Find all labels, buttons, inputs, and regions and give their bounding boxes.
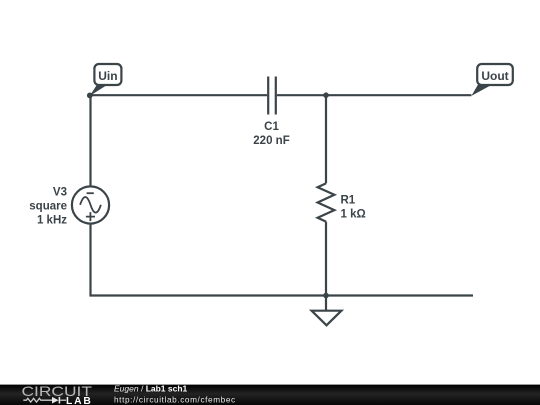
svg-text:C1: C1: [264, 121, 279, 133]
svg-text:square: square: [29, 201, 67, 213]
svg-text:Eugen / Lab1 sch1: Eugen / Lab1 sch1: [114, 383, 188, 393]
wire right vertical lower (R1 bottom to bottom rail): [325, 222, 327, 296]
voltage source V3: [72, 186, 109, 223]
svg-text:1 kHz: 1 kHz: [37, 215, 67, 227]
svg-text:http://circuitlab.com/cfembec: http://circuitlab.com/cfembec: [114, 395, 236, 404]
label V3 value: [29, 187, 67, 227]
wire ground stub: [325, 296, 327, 311]
node Uout flag: [471, 64, 512, 96]
junction node at bottom rail / ground: [323, 293, 329, 299]
resistor R1: [318, 183, 335, 221]
label R1 value: [341, 195, 366, 221]
footer url: [114, 395, 236, 404]
label C1 value: [253, 121, 289, 147]
CircuitLab logo: [22, 383, 93, 405]
footer bar: [0, 385, 540, 405]
svg-text:Uin: Uin: [98, 69, 117, 83]
wire right vertical upper (junction to R1 top): [325, 95, 327, 183]
junction node at C1/R1: [323, 92, 329, 98]
svg-text:V3: V3: [53, 187, 67, 199]
wire left vertical lower (V3 bottom to bottom rail): [89, 224, 91, 297]
wire top left (Uin corner to C1 left plate): [91, 94, 268, 96]
ground: [312, 311, 342, 326]
wire top right (C1 right plate to Uout flag): [277, 94, 472, 96]
node Uin flag: [87, 64, 122, 98]
wire left vertical upper (Uin corner to V3 top): [89, 95, 91, 186]
wire bottom rail: [90, 294, 474, 296]
svg-text:1 kΩ: 1 kΩ: [341, 208, 366, 220]
capacitor C1: [268, 77, 276, 115]
svg-text:Uout: Uout: [481, 69, 508, 83]
svg-text:LAB: LAB: [66, 396, 93, 405]
footer title Eugen / Lab1 sch1: [114, 383, 188, 393]
svg-text:R1: R1: [341, 195, 356, 207]
svg-text:220 nF: 220 nF: [253, 135, 289, 147]
